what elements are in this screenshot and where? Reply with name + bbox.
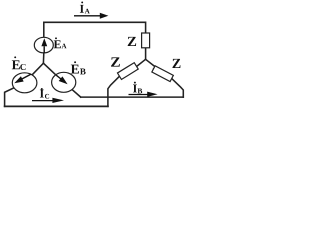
impedance Z1 rect (line A): [142, 33, 150, 48]
wire line C bottom: [5, 105, 108, 107]
wire left Z axis lead: [120, 67, 136, 77]
wire wye center to right Z: [146, 59, 155, 66]
source EC circle: [12, 73, 37, 93]
wire wye center to left Z: [135, 59, 145, 67]
label source EB: [71, 65, 79, 74]
wire EA bottom to generator node: [42, 53, 44, 63]
source EB circle: [52, 72, 76, 92]
source EA circle: [34, 37, 53, 53]
wire node to EB: [43, 63, 55, 75]
label current IB: [133, 85, 137, 93]
current arrow IC: [32, 98, 64, 103]
wire line A top: [44, 22, 146, 37]
source EB emf arrow: [56, 75, 67, 84]
impedance Z3 rect (right): [152, 66, 173, 82]
label Z2 value: [111, 57, 120, 66]
label Z3 value: [172, 59, 180, 68]
label source EC: [12, 60, 20, 69]
wire line C riser to left Z: [108, 76, 120, 106]
current arrow IB: [129, 92, 158, 97]
source EC emf arrow: [14, 74, 31, 83]
wire node to EC: [32, 63, 43, 75]
label current IA: [80, 5, 84, 13]
source EA emf arrow: [41, 38, 47, 53]
wire EC to bottom-left corner: [5, 88, 14, 107]
wire Z1 to wye center: [145, 48, 147, 60]
current arrow IA: [74, 13, 108, 19]
wire EB to line B: [72, 90, 81, 98]
wire right Z axis lead: [154, 69, 172, 79]
impedance Z2 rect (left): [117, 63, 138, 80]
wire line B bottom: [81, 96, 184, 98]
wire line B riser to right Z: [172, 79, 184, 98]
label current IC: [40, 90, 44, 98]
label source EA: [54, 40, 61, 48]
label Z1 value: [128, 37, 136, 46]
